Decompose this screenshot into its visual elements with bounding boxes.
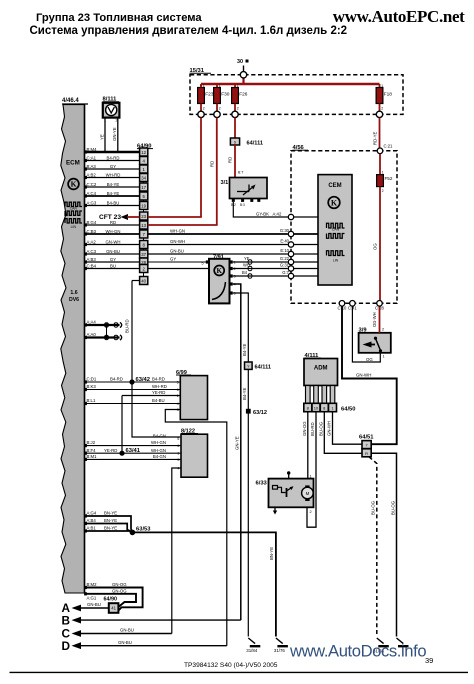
svg-text:G:31: G:31 xyxy=(280,263,290,268)
svg-text:GN-BU: GN-BU xyxy=(120,628,134,633)
svg-text:4/46.4: 4/46.4 xyxy=(62,98,79,104)
svg-text:31/76: 31/76 xyxy=(274,648,286,653)
svg-text:B4-GN: B4-GN xyxy=(153,454,166,459)
svg-text:64/90: 64/90 xyxy=(104,597,118,603)
svg-text:F52: F52 xyxy=(385,176,393,181)
svg-text:64/50: 64/50 xyxy=(341,406,356,412)
svg-text:BU-OG: BU-OG xyxy=(318,421,323,436)
svg-text:A:C3: A:C3 xyxy=(87,249,97,254)
svg-text:GN-YE: GN-YE xyxy=(235,436,240,450)
svg-text:M: M xyxy=(306,491,310,496)
svg-text:19: 19 xyxy=(141,203,146,208)
svg-text:13: 13 xyxy=(141,223,146,228)
svg-text:OG-WH: OG-WH xyxy=(372,312,377,327)
svg-text:WH-RD: WH-RD xyxy=(106,172,121,177)
svg-text:GY: GY xyxy=(110,164,116,169)
svg-text:G:30: G:30 xyxy=(280,228,290,233)
svg-text:WH-GN: WH-GN xyxy=(105,229,120,234)
svg-text:www.AutoEPC.net: www.AutoEPC.net xyxy=(333,7,465,26)
svg-text:GN-BU: GN-BU xyxy=(106,249,120,254)
svg-text:C:C2: C:C2 xyxy=(87,182,97,187)
svg-text:1: 1 xyxy=(237,84,239,88)
svg-text:ECM: ECM xyxy=(66,160,80,167)
svg-text:B:K3: B:K3 xyxy=(87,384,97,389)
svg-text:Группа 23 Топливная система: Группа 23 Топливная система xyxy=(36,12,202,24)
svg-text:A:42: A:42 xyxy=(273,211,282,216)
svg-text:A:G4: A:G4 xyxy=(87,511,97,516)
svg-text:B4-RD: B4-RD xyxy=(152,377,165,382)
svg-text:CEM: CEM xyxy=(328,183,341,189)
svg-text:GN-WH: GN-WH xyxy=(105,239,120,244)
svg-text:E:10: E:10 xyxy=(280,248,289,253)
svg-text:B4: B4 xyxy=(242,270,248,275)
svg-text:CAN: CAN xyxy=(70,206,78,210)
svg-text:B:A3: B:A3 xyxy=(87,164,97,169)
svg-text:F30: F30 xyxy=(221,92,230,98)
svg-text:B4-YE: B4-YE xyxy=(107,182,120,187)
svg-text:2: 2 xyxy=(203,107,205,111)
svg-text:ADM: ADM xyxy=(314,366,328,372)
svg-text:WH-RD: WH-RD xyxy=(152,384,167,389)
svg-text:B:M4: B:M4 xyxy=(87,147,98,152)
svg-text:B:T: B:T xyxy=(238,171,243,175)
svg-text:B4-BU: B4-BU xyxy=(152,398,165,403)
svg-text:2: 2 xyxy=(382,327,384,331)
svg-text:BU-RD: BU-RD xyxy=(310,422,315,436)
svg-text:GN-BU: GN-BU xyxy=(118,640,132,645)
svg-text:B4-YE: B4-YE xyxy=(107,191,120,196)
svg-text:2: 2 xyxy=(237,107,239,111)
svg-text:1.6: 1.6 xyxy=(70,290,77,296)
svg-text:BN-YE: BN-YE xyxy=(104,511,117,516)
svg-text:GN-OG: GN-OG xyxy=(112,588,127,593)
svg-text:WH-GN: WH-GN xyxy=(170,228,185,233)
svg-text:BU-OG: BU-OG xyxy=(371,500,376,515)
svg-text:GN-YE: GN-YE xyxy=(112,127,117,141)
svg-text:2: 2 xyxy=(382,189,384,193)
svg-text:BU-RD: BU-RD xyxy=(125,319,130,333)
svg-text:CFT 23: CFT 23 xyxy=(99,214,121,221)
svg-text:40: 40 xyxy=(141,278,146,283)
svg-text:63/42: 63/42 xyxy=(136,377,151,383)
svg-text:GY: GY xyxy=(110,257,116,262)
svg-text:GN-BU: GN-BU xyxy=(87,602,101,607)
svg-text:5: 5 xyxy=(177,437,179,441)
svg-text:BN-YE: BN-YE xyxy=(104,526,117,531)
svg-text:RD: RD xyxy=(228,157,233,163)
svg-text:LIN: LIN xyxy=(333,259,339,263)
svg-text:B4-GN: B4-GN xyxy=(153,433,166,438)
svg-text:A:B2: A:B2 xyxy=(87,172,97,177)
svg-text:2: 2 xyxy=(219,107,221,111)
svg-text:R: R xyxy=(365,451,368,456)
svg-text:F18: F18 xyxy=(384,92,393,98)
svg-text:5: 5 xyxy=(202,261,204,265)
svg-text:12: 12 xyxy=(141,150,146,155)
svg-text:37: 37 xyxy=(141,252,146,257)
svg-text:B4-YE: B4-YE xyxy=(242,387,247,400)
svg-text:30: 30 xyxy=(237,59,243,65)
svg-text:A:C4: A:C4 xyxy=(87,191,97,196)
svg-text:YE-RD: YE-RD xyxy=(104,448,117,453)
svg-text:B:J2: B:J2 xyxy=(87,440,96,445)
svg-text:Система управления двигателем: Система управления двигателем 4-цил. 1.6… xyxy=(30,25,348,37)
svg-text:1: 1 xyxy=(310,475,312,479)
svg-text:A:A0: A:A0 xyxy=(87,332,97,337)
svg-text:63/41: 63/41 xyxy=(126,448,141,454)
svg-text:WH-GN: WH-GN xyxy=(151,440,166,445)
svg-text:A:G3: A:G3 xyxy=(87,200,97,205)
svg-text:GY-BK: GY-BK xyxy=(256,211,269,216)
svg-text:F23: F23 xyxy=(205,92,214,98)
svg-text:A:B4: A:B4 xyxy=(87,518,97,523)
svg-text:3/1: 3/1 xyxy=(221,180,229,186)
svg-text:A:A2: A:A2 xyxy=(87,239,97,244)
svg-text:C:D1: C:D1 xyxy=(87,377,97,382)
svg-text:C:B4: C:B4 xyxy=(87,263,97,268)
svg-text:LIN: LIN xyxy=(71,225,77,229)
svg-text:B:3: B:3 xyxy=(240,203,245,207)
svg-text:E:40: E:40 xyxy=(280,239,289,244)
svg-text:34: 34 xyxy=(141,175,146,180)
svg-text:39: 39 xyxy=(425,656,433,665)
svg-text:GN-OG: GN-OG xyxy=(302,421,307,436)
svg-text:BN-YE: BN-YE xyxy=(269,547,274,560)
svg-text:A:B3: A:B3 xyxy=(87,257,97,262)
svg-text:B4-RD: B4-RD xyxy=(110,377,123,382)
svg-text:BU-OG: BU-OG xyxy=(390,500,395,515)
svg-text:www.AutoDocs.info: www.AutoDocs.info xyxy=(289,642,426,661)
svg-text:31/84: 31/84 xyxy=(246,648,258,653)
svg-text:A:A4: A:A4 xyxy=(87,319,97,324)
svg-text:C:A1: C:A1 xyxy=(87,155,97,160)
svg-text:B4-BU: B4-BU xyxy=(107,200,120,205)
svg-text:F26: F26 xyxy=(239,92,248,98)
svg-text:1: 1 xyxy=(203,84,205,88)
svg-text:1: 1 xyxy=(382,171,384,175)
svg-text:DV6: DV6 xyxy=(69,297,79,303)
svg-text:41: 41 xyxy=(111,606,116,611)
svg-text:RD: RD xyxy=(210,161,215,167)
svg-text:YE: YE xyxy=(100,134,105,140)
svg-text:B:M1: B:M1 xyxy=(87,454,98,459)
svg-text:2: 2 xyxy=(381,107,383,111)
svg-text:K: K xyxy=(216,267,222,275)
svg-text:CAN: CAN xyxy=(332,228,340,232)
svg-text:A:G1: A:G1 xyxy=(87,596,97,601)
svg-text:GN-OG: GN-OG xyxy=(112,582,127,587)
svg-text:B4-RD: B4-RD xyxy=(107,155,120,160)
svg-text:B:L1: B:L1 xyxy=(87,398,96,403)
svg-text:10: 10 xyxy=(314,405,319,410)
svg-text:B:F4: B:F4 xyxy=(87,448,97,453)
svg-text:GN-BU: GN-BU xyxy=(170,248,184,253)
svg-text:64/111: 64/111 xyxy=(255,365,272,371)
svg-text:A:B1: A:B1 xyxy=(87,526,97,531)
svg-text:GN-WH: GN-WH xyxy=(356,373,371,378)
svg-text:64/51: 64/51 xyxy=(359,434,374,440)
svg-text:BN-YE: BN-YE xyxy=(104,518,117,523)
svg-text:GN-WH: GN-WH xyxy=(327,421,332,436)
svg-text:1: 1 xyxy=(381,84,383,88)
svg-text:G:22: G:22 xyxy=(280,256,290,261)
svg-text:B: B xyxy=(62,613,71,627)
svg-text:23: 23 xyxy=(141,214,146,219)
svg-text:TP3984132 S40 (04-)/V50 2005: TP3984132 S40 (04-)/V50 2005 xyxy=(184,662,278,669)
svg-text:BU: BU xyxy=(110,263,116,268)
svg-text:C:B3: C:B3 xyxy=(87,229,97,234)
svg-text:GN-WH: GN-WH xyxy=(170,239,185,244)
svg-text:K: K xyxy=(71,180,77,189)
svg-text:G:7: G:7 xyxy=(282,270,289,275)
svg-text:1: 1 xyxy=(219,84,221,88)
svg-text:YE-RD: YE-RD xyxy=(152,390,165,395)
svg-text:64/111: 64/111 xyxy=(247,141,264,147)
svg-text:1: 1 xyxy=(383,355,385,359)
svg-text:B:G4: B:G4 xyxy=(87,220,97,225)
svg-text:OG: OG xyxy=(373,243,378,250)
svg-text:D: D xyxy=(62,639,71,653)
svg-text:B:M2: B:M2 xyxy=(87,582,98,587)
svg-text:GY: GY xyxy=(170,256,176,261)
svg-text:WH-GN: WH-GN xyxy=(151,448,166,453)
svg-text:RD-YE: RD-YE xyxy=(373,131,378,145)
svg-text:2: 2 xyxy=(310,510,312,514)
svg-text:63/12: 63/12 xyxy=(253,410,267,416)
svg-text:K: K xyxy=(331,198,338,207)
svg-text:C:21: C:21 xyxy=(384,144,394,149)
svg-text:17: 17 xyxy=(141,185,146,190)
svg-text:6/33: 6/33 xyxy=(256,480,268,486)
svg-text:OG: OG xyxy=(366,357,373,362)
svg-text:B4-YE: B4-YE xyxy=(242,343,247,356)
